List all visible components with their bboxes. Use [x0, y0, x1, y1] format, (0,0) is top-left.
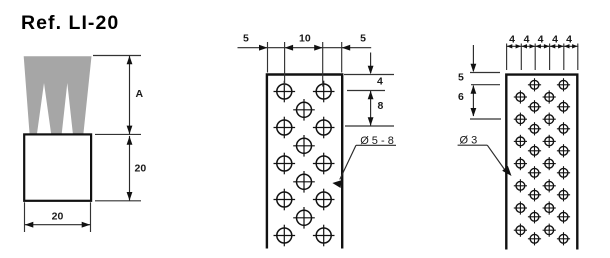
hole 3 row5 col2: [528, 166, 541, 179]
hole 5-8 offset-row2 col2: [293, 135, 315, 157]
tick first row: [471, 84, 500, 86]
hole 3 offset-row4 col3: [543, 157, 556, 170]
hole 3 row3 col4: [557, 122, 570, 135]
hole 3 row1 col2: [528, 78, 541, 91]
extension line right hole column: [322, 42, 324, 87]
hole 5-8 offset-row4 col2: [293, 207, 315, 229]
hole 3 row2 col4: [557, 100, 570, 113]
hole 3 offset-row7 col1: [514, 224, 527, 237]
tick lower row: [470, 118, 501, 120]
tick top edge: [470, 72, 500, 74]
svg-text:5: 5: [243, 33, 249, 45]
svg-text:8: 8: [378, 100, 384, 112]
top dimension line 4x5: [506, 45, 578, 47]
hole 3 row6 col2: [528, 188, 541, 201]
hole 3 offset-row2 col1: [514, 113, 527, 126]
hole 5-8 row2 col3: [313, 117, 335, 139]
hole 3 row8 col2: [528, 232, 541, 245]
extension line left edge: [267, 42, 269, 73]
hole 3 offset-row6 col1: [514, 201, 527, 214]
leader line: [487, 145, 506, 171]
extension line 1: [506, 44, 508, 71]
svg-text:20: 20: [52, 211, 64, 223]
hole 3 offset-row1 col1: [514, 90, 527, 103]
hole 3 row7 col4: [557, 210, 570, 223]
extension line 4: [549, 44, 551, 71]
hole 5-8 row3 col3: [313, 153, 335, 175]
dimension 20 (width) line: [25, 224, 91, 226]
hole 5-8 offset-row1 col2: [293, 99, 315, 121]
dim 4 arrow from above: [370, 53, 372, 74]
hole 5-8 row1 col1: [274, 81, 296, 103]
hole 5-8 row1 col3: [313, 81, 335, 103]
svg-text:20: 20: [135, 163, 147, 175]
svg-text:4: 4: [538, 34, 544, 46]
hole 3 row4 col2: [528, 144, 541, 157]
svg-text:4: 4: [566, 34, 572, 46]
hole 3 offset-row3 col1: [514, 135, 527, 148]
extension line below-left: [24, 202, 26, 232]
dimension A line: [129, 56, 131, 135]
hole 3 offset-row6 col3: [543, 201, 556, 214]
arrow pair span 3: [535, 44, 541, 48]
hole 3 row5 col4: [557, 166, 570, 179]
hole 3 row7 col2: [528, 210, 541, 223]
hole 3 offset-row5 col3: [543, 179, 556, 192]
tick at strip top edge: [344, 74, 394, 76]
hole 3 offset-row7 col3: [543, 224, 556, 237]
arrow pair span 2: [522, 44, 528, 48]
extension line 5: [563, 44, 565, 71]
svg-text:10: 10: [299, 33, 311, 45]
hole 3 row3 col2: [528, 122, 541, 135]
arrow pair span 5: [564, 44, 570, 48]
leader underline: [356, 144, 396, 146]
dimension 20 (height) line: [129, 136, 131, 201]
leader line: [340, 145, 356, 179]
extension line 6: [577, 44, 579, 71]
hole 3 offset-row4 col1: [514, 157, 527, 170]
hole 3 offset-row3 col3: [543, 135, 556, 148]
hole 5-8 row3 col1: [274, 153, 296, 175]
arrow pair span 1: [507, 44, 513, 48]
hole 3 row8 col4: [557, 232, 570, 245]
arrow pair span 4: [550, 44, 556, 48]
brush bristles (gray tufts): [24, 56, 92, 136]
hole 3 row1 col4: [557, 78, 570, 91]
dim 5 arrow from above: [472, 45, 474, 71]
svg-text:4: 4: [524, 34, 530, 46]
hole 5-8 offset-row3 col2: [293, 171, 315, 193]
dim 8 line: [370, 91, 372, 126]
hole 3 row4 col4: [557, 144, 570, 157]
hole 3 offset-row2 col3: [543, 113, 556, 126]
svg-text:4: 4: [377, 76, 383, 88]
extension line top (A): [93, 55, 141, 57]
tick at second row: [345, 125, 394, 127]
leader underline: [458, 144, 488, 146]
svg-text:A: A: [136, 88, 144, 100]
svg-text:6: 6: [458, 91, 464, 103]
hole 5-8 row5 col1: [274, 225, 296, 247]
hole 5-8 row4 col1: [274, 189, 296, 211]
top dimension line 5/10/5: [238, 47, 372, 49]
profile square 20x20: [24, 134, 91, 200]
extension line 2: [520, 44, 522, 71]
hole 3 offset-row5 col1: [514, 179, 527, 192]
hole 5-8 row5 col3: [313, 225, 335, 247]
right strip outline (open bottom): [506, 75, 577, 250]
extension line right edge: [341, 42, 343, 73]
tick at first row: [347, 90, 385, 92]
hole 3 offset-row1 col3: [543, 90, 556, 103]
svg-text:4: 4: [552, 34, 558, 46]
extension line below-right: [90, 202, 92, 232]
dim 6 line: [472, 86, 474, 117]
extension line mid: [95, 133, 141, 135]
svg-text:5: 5: [458, 72, 464, 84]
svg-text:4: 4: [509, 34, 515, 46]
hole 3 row6 col4: [557, 188, 570, 201]
hole 3 row2 col2: [528, 100, 541, 113]
extension line bottom: [95, 200, 141, 202]
middle strip outline (open bottom): [267, 75, 342, 249]
hole 5-8 row2 col1: [274, 117, 296, 139]
extension line 3: [534, 44, 536, 71]
hole 5-8 row4 col3: [313, 189, 335, 211]
extension line left hole column: [284, 42, 286, 87]
svg-text:Ref. LI-20: Ref. LI-20: [21, 12, 119, 34]
svg-text:5: 5: [360, 33, 366, 45]
